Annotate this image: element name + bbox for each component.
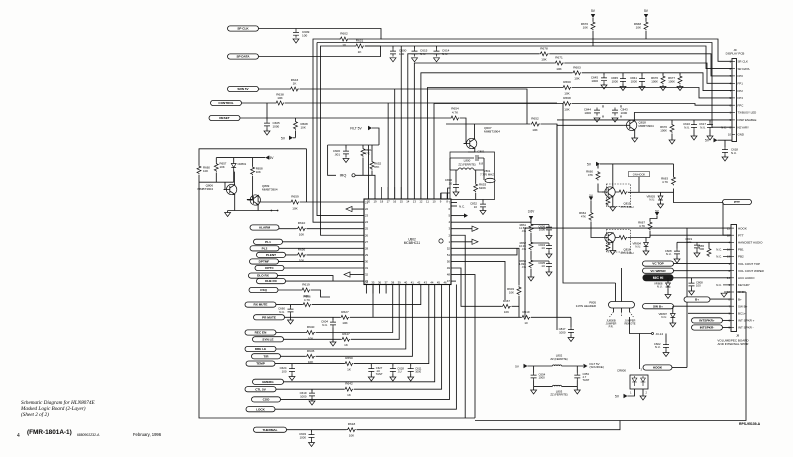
resistor R638 [275,92,284,105]
wire VOL CONT WIPER row [674,270,732,272]
ground [689,291,695,295]
capacitor C619B [685,237,700,251]
transistor Q607 [464,126,501,149]
terminal DPTMF [250,259,279,264]
svg-text:FP2: FP2 [738,89,744,93]
wire Q607 emitter [468,148,475,152]
ground [574,390,580,394]
svg-text:C8411000: C8411000 [630,76,637,83]
terminal PL2 [250,246,279,251]
svg-text:VC WIPER: VC WIPER [650,269,666,273]
svg-text:25: 25 [365,227,369,231]
terminal LOCK [246,407,275,412]
svg-text:VOL CONT WIPER: VOL CONT WIPER [738,269,765,273]
ground [640,396,646,400]
svg-text:(Sheet 2 of 2): (Sheet 2 of 2) [21,411,49,418]
terminal B+ [684,297,710,302]
wire pin39 (SYN LE) [284,285,400,340]
power 5V [281,136,293,141]
svg-text:SR DATA: SR DATA [738,67,750,71]
svg-text:3.6V: 3.6V [528,210,535,214]
wire pin4 row [451,221,531,223]
svg-text:BC1+: BC1+ [738,312,746,316]
wire C614 stub [436,46,438,49]
wire pin33 (DHE RX) [286,280,365,282]
svg-text:48: 48 [447,273,451,277]
wire CR800 pin1 [628,389,635,396]
svg-text:N.C.: N.C. [716,283,722,287]
svg-text:JUMPERREMOTE: JUMPERREMOTE [624,319,635,326]
ground [612,118,618,122]
svg-text:4: 4 [17,433,20,439]
capacitor C611 [408,366,422,374]
capacitor C830 [445,178,459,190]
wire pin51 row [451,248,517,255]
transistor Q809 [247,184,278,206]
op-amp U802 MC68HC11 body [364,199,451,285]
svg-text:DRE LE: DRE LE [255,347,266,351]
svg-text:10K: 10K [574,77,580,81]
svg-text:37: 37 [384,280,388,284]
svg-text:19: 19 [373,199,377,203]
resistor R663 [661,176,675,185]
wire C605 taps [266,103,268,131]
svg-text:MMBT3904: MMBT3904 [197,187,213,191]
terminal T/R [252,354,281,359]
ground [343,159,349,163]
svg-text:10K: 10K [277,96,283,100]
wire pin27 (PL1) [283,241,365,243]
wire P805 top feeds [616,268,622,302]
svg-text:ZZ (FERRITE): ZZ (FERRITE) [550,357,567,361]
wire C602 stub [665,334,667,353]
capacitor C832 [470,202,486,210]
node J3-14 [652,332,664,336]
svg-text:C604N.U.: C604N.U. [321,320,328,327]
diode VR804 [632,242,648,249]
resistor R652B [531,117,540,132]
svg-text:C608N.U.: C608N.U. [665,249,672,256]
svg-text:CSQ: CSQ [260,288,267,292]
svg-text:C8451000: C8451000 [611,76,618,83]
svg-text:12: 12 [727,290,731,294]
terminal DHE RX [257,279,286,284]
wire FP1 net [414,63,732,199]
resistor R665B [697,244,711,257]
svg-text:N.C.: N.C. [716,248,722,252]
svg-text:R667: R667 [503,299,510,303]
svg-text:18: 18 [727,233,731,237]
power 5V [589,194,593,201]
svg-text:CR800: CR800 [617,369,626,373]
svg-text:R677100K: R677100K [668,76,675,83]
capacitor C843 [612,108,628,116]
svg-text:N.C.: N.C. [721,125,727,129]
svg-text:FP3: FP3 [738,96,744,100]
wire pin35 (PR MUTE) [285,285,572,318]
terminal INTSPKR- [692,325,723,330]
wire C844 stub [602,105,604,117]
svg-text:R6674.7K: R6674.7K [638,221,645,228]
svg-text:VOLUME/PEC BOARDAND INTERNAL S: VOLUME/PEC BOARDAND INTERNAL SPKR [717,339,749,346]
svg-text:SYN LE: SYN LE [262,337,273,341]
svg-text:GND: GND [738,133,744,137]
wire Q816 out [616,235,732,237]
svg-text:ACC AUDIO: ACC AUDIO [738,276,755,280]
resistor R608 [294,121,309,130]
wire CR800 pin2 [642,389,644,396]
svg-text:KEYARY: KEYARY [738,125,750,129]
wire C617 stub [709,120,711,136]
svg-text:CR801: CR801 [238,162,247,166]
capacitor C841 [630,76,645,84]
terminal RESET [209,115,240,120]
label CR800 pins [630,368,647,395]
resistor R668B [562,96,571,111]
svg-text:C602N.U.: C602N.U. [654,342,661,349]
svg-text:R67610K: R67610K [581,22,589,29]
power 5V [615,394,627,399]
resistor R655 [197,165,210,174]
resistor R662 [519,241,533,251]
node N.C. PB2 [716,255,731,259]
svg-text:ALARM: ALARM [259,226,271,230]
wire Q607 collector [446,124,530,139]
box oscillator shield [450,152,495,200]
svg-text:35: 35 [371,280,375,284]
wire R664B net [591,201,602,238]
svg-text:10K: 10K [564,91,570,95]
resistor R652A [370,161,382,170]
wire C618 gnd stub [724,155,726,157]
svg-text:THERMAL: THERMAL [262,428,277,432]
svg-text:C6541000: C6541000 [539,373,546,380]
wire pin47 row [451,280,456,282]
wire J3-14 stub [630,317,652,369]
svg-text:5V: 5V [655,209,659,213]
ground [408,377,414,381]
wire BC1+ row [688,312,731,314]
resistor R607 [502,299,511,314]
node junction [271,210,279,212]
resistor R647 [341,332,350,347]
resistor R654 [450,107,459,121]
capacitor C606 [333,149,349,157]
resistor R650 [344,356,353,371]
wire Q815 out [616,189,724,203]
wire R653 stubs [475,170,477,200]
wire DLO RX to pin33 [278,276,334,282]
wire Q806 emitter [234,194,236,211]
wire SW B+ row [674,305,732,307]
wire pin48 row [451,275,475,418]
svg-text:6.8: 6.8 [479,162,484,166]
terminal REC EN [245,330,276,335]
wire HANDSET AUDIO row [677,241,731,243]
wire SR DATA bus [365,46,732,69]
svg-text:HANDSET AUDIO: HANDSET AUDIO [738,241,763,245]
wire C843 stub [620,105,622,117]
ground [288,320,294,324]
ground [643,251,649,255]
svg-text:47: 47 [447,279,451,283]
wire C616 stub [693,120,695,136]
svg-text:IRQ: IRQ [340,174,347,178]
power 5V [587,162,600,167]
wire base node rail [199,182,234,189]
svg-text:CSO: CSO [263,398,270,402]
svg-text:R60310K: R60310K [507,287,514,294]
capacitor C619 [300,391,315,399]
label part number [739,422,761,426]
wire LOCK row [275,285,456,410]
terminal TEMP [246,361,275,366]
node pin1 arrow [472,239,478,244]
svg-text:INT SPKR -: INT SPKR - [738,326,754,330]
resistor R642 [344,382,353,397]
ground [390,377,396,381]
ground [309,443,315,447]
svg-text:17: 17 [387,199,391,203]
svg-text:LOCK: LOCK [256,407,266,411]
wire filter top rail [528,365,584,367]
wire C653 stubs [576,366,578,390]
resistor R657B [340,310,349,325]
terminal DLO RX [249,273,278,278]
ground [610,207,616,211]
ground [639,87,645,91]
diode VR807 [658,312,675,320]
svg-text:21: 21 [365,201,369,205]
svg-text:HOOK: HOOK [738,226,747,230]
wire pin6 [451,205,457,207]
svg-text:R668: R668 [563,96,571,100]
wire R652B to vertical [541,124,558,330]
wire 5V to R608 [293,137,296,139]
wire pin16 from SRN5V [394,89,396,199]
svg-text:13: 13 [413,199,417,203]
power FILT 5V SOURCE [584,362,604,369]
wire C847 stub [570,317,572,337]
wire mid vertical 563 [563,103,616,283]
box Q815 dashed [606,184,630,207]
wire pin44 (EMERG) [284,285,435,382]
terminal HOOK [643,365,672,370]
wire pin50 row [451,261,505,300]
wire P805 legs [614,308,630,312]
ground [707,136,713,140]
svg-text:L800: L800 [464,159,471,163]
svg-text:29: 29 [365,253,369,257]
wire C634 tap [531,243,549,254]
svg-text:12: 12 [419,199,423,203]
terminal PTT [723,199,752,204]
capacitor C653 [574,372,589,382]
wire RESET to R654 [460,118,466,144]
svg-text:38: 38 [391,280,395,284]
wire L803 row [534,385,578,387]
wire C645 stub [603,73,605,85]
ground [330,342,336,346]
svg-text:DTC144H: DTC144H [621,251,634,255]
wire CSQ line [278,290,330,297]
wire outline box [199,149,475,418]
wire DN-400K stub [638,177,640,193]
resistor R656 [297,247,306,262]
connector J9 DISPLAY PCB [726,48,745,142]
diode CR801 [231,162,246,170]
svg-text:36: 36 [378,280,382,284]
power FILT 5V [350,126,372,131]
svg-text:4.7K: 4.7K [452,110,459,114]
svg-text:MMBT3904: MMBT3904 [262,188,278,192]
svg-text:34: 34 [365,280,369,284]
resistor R661 [519,223,533,233]
svg-text:Masked Logic Board (2-Layer): Masked Logic Board (2-Layer) [20,405,86,412]
label DN-400K [629,172,650,177]
wire C660 stub [290,305,292,320]
svg-text:TEMP: TEMP [256,362,265,366]
ground [568,338,574,342]
resistor R640 [306,325,315,340]
diode CR800 [617,369,648,390]
svg-text:R66447K: R66447K [579,211,586,218]
svg-text:R665500: R665500 [697,244,704,251]
wire B+ row [710,298,731,300]
ground [665,295,671,299]
svg-text:R670100K: R670100K [660,125,667,132]
wire CONTROL line [242,102,558,104]
wire pin34-37 stubs [366,285,386,294]
svg-text:R650: R650 [345,356,353,360]
wire VR803 stub [660,192,662,204]
terminal CONTROL [211,100,242,105]
wire Q816 emitter [612,243,614,251]
label sheet title [20,399,95,418]
svg-text:FP1: FP1 [738,82,744,86]
svg-text:HOOK: HOOK [653,366,663,370]
terminal EMERG [253,379,284,384]
wire THERMAL row [287,421,621,430]
svg-text:C606.001: C606.001 [333,149,341,156]
wire VR808 stub [667,278,669,295]
wire ACC AUDIO row [674,277,732,279]
svg-text:L803: L803 [556,389,563,393]
svg-text:PLENT: PLENT [266,253,276,257]
wire pin29 (PLENT) [286,254,365,256]
svg-text:R603: R603 [573,65,581,69]
terminal DPTC [255,265,284,270]
wire C603B stub [311,430,313,443]
svg-text:15: 15 [400,199,404,203]
ground [531,390,537,394]
svg-text:30: 30 [365,259,369,263]
wire Q806 collector [233,172,236,185]
svg-text:14: 14 [406,199,410,203]
wire CR801 stubs [233,158,235,183]
svg-text:SRN 5V: SRN 5V [237,87,249,91]
wire left gnd stub [533,386,535,390]
wire C609 stub [295,29,297,30]
wire R676 [592,18,594,46]
wire C600 stub [392,46,394,49]
wire R667 net [650,216,657,238]
wire RESET line [240,117,450,119]
wire FPC net [434,104,732,200]
svg-text:16: 16 [727,248,731,252]
svg-text:R659: R659 [291,195,299,199]
svg-text:R66047K: R66047K [586,170,593,177]
svg-text:R6634.7K: R6634.7K [661,177,668,184]
svg-text:VC TOP: VC TOP [652,262,663,266]
wire R608 taps [295,118,297,138]
svg-text:MRBT3904: MRBT3904 [639,124,655,128]
ground [293,39,299,43]
capacitor C602 [654,342,669,350]
wire divider column [530,219,532,277]
svg-text:DLO RX: DLO RX [257,274,270,278]
capacitor C615 [412,49,428,57]
capacitor C635 [538,261,552,269]
ground [453,192,459,196]
capacitor C847 [559,327,574,335]
ground [289,377,295,381]
svg-text:PB2: PB2 [738,255,744,259]
capacitor C618 [722,147,738,155]
svg-text:C660N.U.: C660N.U. [278,307,285,314]
resistor R670 [660,124,674,133]
wire Q809 emitter [257,205,259,211]
wire pin38 (REC EN) [276,285,393,333]
diode VR808 [654,282,670,290]
svg-text:N.C.: N.C. [716,255,722,259]
capacitor C617 [699,122,713,130]
svg-text:C6451000: C6451000 [591,76,599,83]
wire C845 stub [622,73,624,87]
wire Q818 emitter [634,130,636,138]
svg-text:J3-14: J3-14 [656,332,664,336]
wire pin25 (ALARM) [279,228,364,230]
ground [594,118,600,122]
svg-text:10K: 10K [541,58,547,62]
svg-text:10K: 10K [349,434,355,438]
terminal RX MUTE [245,302,276,307]
wire pin7 [451,202,457,204]
terminal PR MUTE [254,315,285,320]
svg-text:PR MUTE: PR MUTE [262,315,276,319]
wire C615 stub [414,46,416,49]
terminal CSO [252,397,281,402]
wire R670 stub [671,120,673,140]
svg-text:ZZ (FERRITE): ZZ (FERRITE) [458,163,475,167]
svg-text:10: 10 [728,133,732,137]
svg-text:INT SPKR +: INT SPKR + [738,319,755,323]
resistor Q815 internal [606,190,627,206]
svg-text:6880902Z32-A: 6880902Z32-A [77,433,100,437]
ground [694,253,700,257]
resistor R606 [302,294,311,306]
wire pin30 (DPTMF) [279,260,365,262]
svg-text:10K: 10K [299,259,305,263]
wire pin2 row [451,235,465,418]
wire R667 right [512,305,520,307]
terminal VC WIPER [643,268,674,273]
wire C606 stub [345,145,347,158]
resistor R602 [339,32,348,47]
terminal SYN LE [253,337,284,342]
ground [528,277,534,281]
svg-text:VOL CONT TOP: VOL CONT TOP [738,262,760,266]
